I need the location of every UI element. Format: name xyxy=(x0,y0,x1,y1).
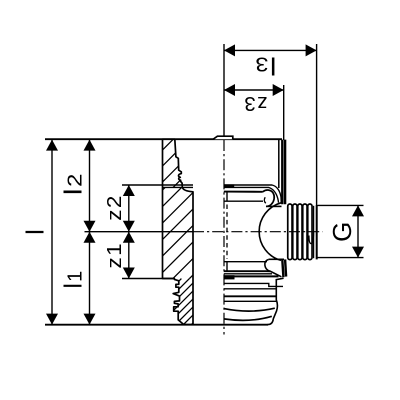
arrow z1 bottom xyxy=(123,268,135,279)
arrow l3 left xyxy=(224,44,235,56)
G top extension xyxy=(318,204,364,206)
collar line L3 bottom xyxy=(224,270,270,272)
dimension line z2 xyxy=(128,185,130,232)
collar line L4 xyxy=(224,200,263,202)
arrow l2 top xyxy=(84,140,96,151)
bead line L2 right half xyxy=(224,187,279,202)
arrow l1 bottom xyxy=(84,314,96,325)
flange thick edge upper a xyxy=(281,140,283,205)
thread crest 1 xyxy=(288,204,292,260)
socket band b3 xyxy=(224,295,276,297)
trumpet top inner curl xyxy=(264,197,265,203)
dimension line l1 xyxy=(89,232,91,325)
collar line L4 bottom xyxy=(224,261,267,263)
thread crest 3 xyxy=(298,204,302,260)
bottom band rim (thick) xyxy=(224,275,279,277)
flange thick edge upper b xyxy=(284,140,286,205)
svg-text:G: G xyxy=(327,222,357,242)
extension line x=316.6 xyxy=(316,44,318,205)
extension line x=224 above xyxy=(223,44,225,136)
arrow G bottom xyxy=(352,247,364,258)
svg-text:z2: z2 xyxy=(103,194,126,221)
thread crest 5 xyxy=(308,204,312,260)
svg-text:z3: z3 xyxy=(243,92,267,115)
arrow z2 bottom xyxy=(123,221,135,232)
arrow l3 right xyxy=(306,44,317,56)
extension line x=283.7 xyxy=(283,85,285,140)
svg-text:z1: z1 xyxy=(103,242,126,268)
arrow z1 top xyxy=(123,232,135,243)
bead line L1 right half xyxy=(224,185,281,204)
thread runout loop xyxy=(309,233,314,244)
arrow l bottom xyxy=(46,314,58,325)
thread crest 4 xyxy=(303,204,307,260)
collar silhouette vertical solid bottom xyxy=(226,262,228,272)
end face xyxy=(316,205,318,259)
dark blob bottom xyxy=(224,275,235,279)
dark blob top xyxy=(224,184,234,188)
wire: section hatching xyxy=(74,139,281,324)
bottom edge xyxy=(45,324,268,326)
collar line L3 xyxy=(224,191,263,193)
bottom socket right silhouette xyxy=(268,278,284,324)
arrow l top xyxy=(46,140,58,151)
arrow l2 bottom xyxy=(84,221,96,232)
sphere arc xyxy=(259,203,281,261)
flange thick edge lower a xyxy=(282,259,283,277)
outlet bottom edge xyxy=(269,258,284,260)
vertical centerline xyxy=(223,140,225,335)
wire: left wall cross-section outline (hatched body wall) xyxy=(163,139,194,324)
arrow z3 left xyxy=(224,84,235,96)
bead line L1 (z2 extension + bead top) xyxy=(122,184,193,186)
dimension line G xyxy=(357,205,359,257)
arrow G top xyxy=(352,205,364,216)
dimension line l xyxy=(51,140,53,325)
thread crest 2 xyxy=(293,204,297,260)
arrow z2 top xyxy=(123,185,135,196)
svg-text:l: l xyxy=(22,229,50,235)
socket bulge arc 1 xyxy=(224,308,275,311)
collar hidden vertical dashed xyxy=(226,205,228,260)
socket band b2 xyxy=(224,288,276,290)
trumpet bottom xyxy=(265,259,282,276)
G bottom extension xyxy=(318,257,364,259)
flange thick edge lower b xyxy=(285,259,286,276)
horizontal centerline dashdot xyxy=(193,231,323,233)
svg-text:l2: l2 xyxy=(59,172,87,195)
socket band step a xyxy=(224,283,283,286)
svg-text:l3: l3 xyxy=(254,52,277,80)
dimension line l2 xyxy=(89,140,91,232)
tab on top near centerline xyxy=(213,136,233,139)
bottom band b0 xyxy=(224,273,272,275)
dimension line l3 xyxy=(224,49,317,51)
dimension line z1 xyxy=(128,232,130,279)
top edge of body xyxy=(45,138,282,140)
bead line L2 xyxy=(163,186,194,188)
dimension line z3 xyxy=(224,89,284,91)
socket bulge arc 2 xyxy=(224,316,272,320)
trumpet top xyxy=(263,190,274,206)
socket band b4 xyxy=(224,300,276,302)
arrow l1 top xyxy=(84,232,96,243)
svg-text:l1: l1 xyxy=(59,270,87,289)
right silhouette of top socket xyxy=(278,139,280,188)
z1 extension line xyxy=(122,278,174,280)
arrow z3 right xyxy=(273,84,284,96)
horizontal centerline solid part xyxy=(85,231,194,233)
outlet top edge xyxy=(266,205,282,207)
collar silhouette vertical solid top xyxy=(226,192,228,201)
thread end cylinder edge xyxy=(313,206,315,258)
